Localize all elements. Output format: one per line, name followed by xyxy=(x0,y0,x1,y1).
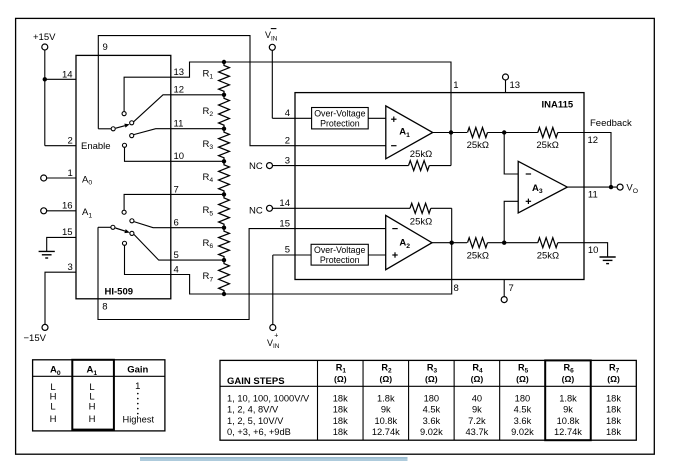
svg-text:Feedback: Feedback xyxy=(590,118,632,129)
svg-text:(Ω): (Ω) xyxy=(380,374,393,384)
svg-text:43.7k: 43.7k xyxy=(466,427,489,437)
svg-text:1, 2, 4, 8V/V: 1, 2, 4, 8V/V xyxy=(227,405,279,415)
svg-text:14: 14 xyxy=(62,69,73,80)
svg-text:(Ω): (Ω) xyxy=(562,374,575,384)
svg-text:GAIN STEPS: GAIN STEPS xyxy=(227,376,285,387)
svg-text:8: 8 xyxy=(454,283,459,294)
svg-text:4: 4 xyxy=(285,108,290,119)
svg-text:7: 7 xyxy=(174,184,179,195)
svg-text:7: 7 xyxy=(509,283,514,294)
svg-text:25kΩ: 25kΩ xyxy=(537,251,559,262)
svg-text:18k: 18k xyxy=(606,416,621,426)
svg-text:15: 15 xyxy=(279,219,290,230)
svg-text:−15V: −15V xyxy=(24,333,47,344)
svg-text:4.5k: 4.5k xyxy=(423,405,441,415)
svg-text:13: 13 xyxy=(174,67,185,78)
svg-text:Protection: Protection xyxy=(320,255,360,265)
svg-text:18k: 18k xyxy=(333,416,348,426)
svg-text:18k: 18k xyxy=(333,405,348,415)
svg-text:9k: 9k xyxy=(563,405,573,415)
svg-text:25kΩ: 25kΩ xyxy=(410,149,432,160)
svg-text:(Ω): (Ω) xyxy=(607,374,620,384)
svg-text:18k: 18k xyxy=(606,427,621,437)
svg-text:+: + xyxy=(274,332,278,339)
svg-text:180: 180 xyxy=(424,394,440,404)
svg-text:(Ω): (Ω) xyxy=(471,374,484,384)
svg-text:Protection: Protection xyxy=(320,118,360,128)
svg-text:12.74k: 12.74k xyxy=(372,427,400,437)
svg-text:3: 3 xyxy=(285,156,290,167)
svg-text:180: 180 xyxy=(515,394,531,404)
svg-text:25kΩ: 25kΩ xyxy=(467,140,489,151)
svg-text:1.8k: 1.8k xyxy=(377,394,395,404)
svg-text:HI-509: HI-509 xyxy=(105,286,134,297)
svg-text:25kΩ: 25kΩ xyxy=(410,216,432,227)
svg-text:H: H xyxy=(89,401,96,412)
svg-text:2: 2 xyxy=(285,136,290,147)
svg-text:L: L xyxy=(50,401,55,412)
svg-text:18k: 18k xyxy=(606,405,621,415)
svg-text:10: 10 xyxy=(588,245,599,256)
svg-text:8: 8 xyxy=(102,301,107,312)
svg-text:18k: 18k xyxy=(606,394,621,404)
svg-text:10.8k: 10.8k xyxy=(374,416,397,426)
svg-text:25kΩ: 25kΩ xyxy=(467,251,489,262)
svg-text:1.8k: 1.8k xyxy=(559,394,577,404)
svg-text:1: 1 xyxy=(135,381,140,392)
svg-text:13: 13 xyxy=(510,80,521,91)
svg-text:6: 6 xyxy=(174,218,179,229)
svg-text:Enable: Enable xyxy=(81,141,111,152)
svg-text:9k: 9k xyxy=(472,405,482,415)
svg-text:1: 1 xyxy=(453,80,458,91)
svg-text:7.2k: 7.2k xyxy=(468,416,486,426)
svg-text:2: 2 xyxy=(68,136,73,147)
svg-text:3.6k: 3.6k xyxy=(423,416,441,426)
svg-text:Highest: Highest xyxy=(123,414,155,424)
svg-text:INA115: INA115 xyxy=(542,99,574,110)
svg-text:9.02k: 9.02k xyxy=(420,427,443,437)
svg-text:12: 12 xyxy=(174,85,185,96)
svg-text:9k: 9k xyxy=(381,405,391,415)
svg-text:3: 3 xyxy=(68,262,73,273)
svg-text:1, 10, 100, 1000V/V: 1, 10, 100, 1000V/V xyxy=(227,394,310,404)
svg-text:Over-Voltage: Over-Voltage xyxy=(314,108,365,118)
svg-text:4: 4 xyxy=(174,264,179,275)
svg-text:5: 5 xyxy=(174,250,179,261)
svg-text:12.74k: 12.74k xyxy=(554,427,582,437)
svg-text:1, 2, 5, 10V/V: 1, 2, 5, 10V/V xyxy=(227,416,284,426)
svg-text:15: 15 xyxy=(62,227,73,238)
svg-text:10: 10 xyxy=(174,151,185,162)
svg-text:25kΩ: 25kΩ xyxy=(536,140,558,151)
svg-text:14: 14 xyxy=(279,198,290,209)
svg-text:NC: NC xyxy=(249,206,263,217)
svg-text:H: H xyxy=(50,414,57,425)
svg-text:+15V: +15V xyxy=(33,32,56,43)
svg-text:16: 16 xyxy=(62,201,73,212)
svg-text:Over-Voltage: Over-Voltage xyxy=(314,245,365,255)
svg-text:12: 12 xyxy=(588,135,599,146)
svg-text:4.5k: 4.5k xyxy=(514,405,532,415)
svg-text:0, +3, +6, +9dB: 0, +3, +6, +9dB xyxy=(227,427,291,437)
svg-text:Gain: Gain xyxy=(127,365,148,376)
svg-text:11: 11 xyxy=(174,119,184,130)
svg-text:9.02k: 9.02k xyxy=(511,427,534,437)
svg-text:H: H xyxy=(89,414,96,425)
svg-text:11: 11 xyxy=(588,190,598,201)
svg-text:1: 1 xyxy=(68,168,73,179)
svg-text:(Ω): (Ω) xyxy=(516,374,529,384)
svg-text:18k: 18k xyxy=(333,394,348,404)
svg-text:9: 9 xyxy=(103,42,108,53)
svg-text:(Ω): (Ω) xyxy=(425,374,438,384)
svg-text:18k: 18k xyxy=(333,427,348,437)
svg-text:5: 5 xyxy=(285,244,290,255)
svg-text:NC: NC xyxy=(249,161,263,172)
svg-text:10.8k: 10.8k xyxy=(557,416,580,426)
svg-text:(Ω): (Ω) xyxy=(334,374,347,384)
svg-text:3.6k: 3.6k xyxy=(514,416,532,426)
svg-text:40: 40 xyxy=(472,394,482,404)
